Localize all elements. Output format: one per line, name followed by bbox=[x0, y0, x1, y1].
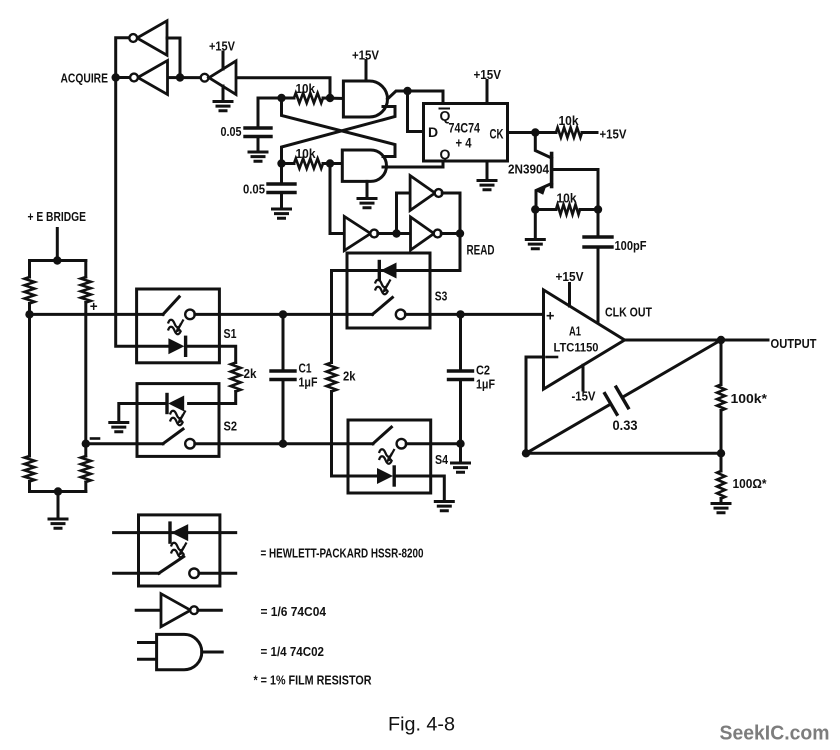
label - input bbox=[547, 356, 558, 359]
svg-text:S4: S4 bbox=[435, 452, 449, 467]
svg-text:* = 1% FILM RESISTOR: * = 1% FILM RESISTOR bbox=[254, 674, 372, 688]
legend LED bbox=[168, 523, 171, 542]
svg-text:C2: C2 bbox=[476, 364, 490, 378]
svg-text:CK: CK bbox=[490, 126, 504, 142]
svg-text:0.33: 0.33 bbox=[613, 418, 638, 433]
ground below bridge bbox=[49, 519, 67, 528]
svg-text:+15V: +15V bbox=[556, 270, 585, 284]
wire feedback bottom bbox=[526, 452, 721, 455]
wire CK to transistor node bbox=[508, 131, 536, 134]
svg-text:+ E BRIDGE: + E BRIDGE bbox=[28, 210, 87, 224]
transistor Q1 2N3904 collector bbox=[535, 133, 551, 159]
node 100k bottom dot bbox=[717, 449, 725, 457]
switch S1 contact bbox=[185, 310, 195, 320]
svg-text:10k: 10k bbox=[296, 81, 316, 96]
svg-text:Q: Q bbox=[440, 146, 451, 162]
LED S1 bbox=[168, 338, 184, 354]
resistor R3 10k pullup bbox=[535, 131, 556, 134]
wire gate U1b output to Q pin bbox=[383, 161, 443, 167]
wire S4 to C2 node bbox=[406, 442, 460, 445]
node bridge + dot bbox=[25, 310, 33, 318]
capacitor C3 0.05 plates bbox=[245, 128, 271, 137]
svg-text:= HEWLETT-PACKARD HSSR-8200: = HEWLETT-PACKARD HSSR-8200 bbox=[261, 547, 424, 561]
wire bridge - to S2 pivot bbox=[86, 442, 163, 445]
svg-text:74C74: 74C74 bbox=[449, 120, 481, 136]
wire op amp output bbox=[625, 339, 768, 342]
legend gate output wire bbox=[202, 651, 222, 654]
svg-text:100Ω*: 100Ω* bbox=[733, 476, 768, 491]
wire bridge + to S1 pivot bbox=[30, 313, 164, 316]
ground below gate U1b bbox=[358, 199, 376, 208]
switch S2 arm bbox=[163, 429, 183, 444]
node READ dot bbox=[456, 229, 464, 237]
node C2 bottom dot bbox=[456, 440, 464, 448]
switch S3 arm bbox=[372, 298, 392, 315]
node C1 top dot bbox=[279, 310, 287, 318]
svg-text:OUTPUT: OUTPUT bbox=[771, 336, 817, 351]
svg-text:+: + bbox=[546, 309, 554, 325]
ground below C4 bbox=[273, 209, 291, 218]
inverter U2d bbox=[410, 176, 435, 211]
svg-text:+15V: +15V bbox=[209, 40, 236, 54]
LED S2 bbox=[165, 395, 168, 413]
wire 100pF to CLK OUT pin bbox=[597, 248, 600, 324]
wire bridge bottom to ground bbox=[57, 492, 60, 519]
svg-text:1μF: 1μF bbox=[299, 376, 318, 390]
transistor Q1 base lead bbox=[552, 170, 598, 210]
legend inverter bbox=[161, 594, 191, 627]
svg-text:LTC1150: LTC1150 bbox=[554, 341, 599, 355]
wire cross-coupling from R2 node to gate U1a bbox=[282, 107, 396, 164]
node C2 top dot bbox=[456, 310, 464, 318]
wire S2 LED to ground bbox=[137, 402, 167, 405]
svg-text:1μF: 1μF bbox=[476, 378, 495, 392]
opto squiggle S2 bbox=[170, 411, 186, 426]
svg-text:+15V: +15V bbox=[352, 49, 380, 63]
svg-text:ACQUIRE: ACQUIRE bbox=[61, 72, 109, 86]
resistor bridge upper-left bbox=[28, 261, 31, 278]
switch box S2 bbox=[137, 384, 219, 457]
wire E BRIDGE stub bbox=[56, 229, 59, 261]
capacitor C2 plates bbox=[449, 371, 473, 380]
legend switch arm bbox=[159, 557, 184, 574]
switch S4 contact bbox=[397, 439, 407, 449]
resistor R8 100ohm bbox=[720, 453, 723, 471]
ground below C3 bbox=[249, 152, 267, 161]
transistor Q1 emitter arrow bbox=[537, 185, 547, 195]
switch S2 contact bbox=[185, 439, 195, 449]
svg-text:+ 4: + 4 bbox=[456, 135, 472, 151]
capacitor C6 0.33 plates bbox=[605, 387, 628, 414]
legend gate input wires bbox=[139, 641, 157, 644]
node output dot bbox=[717, 336, 725, 344]
ground below 100ohm bbox=[712, 504, 730, 513]
svg-text:-15V: -15V bbox=[572, 390, 597, 404]
wire C3 to ground bbox=[257, 138, 260, 152]
node bridge - dot bbox=[82, 440, 90, 448]
op-amp A1 triangle bbox=[544, 290, 625, 389]
wire S1 LED to 2k R5 bbox=[187, 346, 236, 362]
wire gate U1a output to 74C74 bbox=[388, 91, 444, 104]
wire C4 to ground bbox=[280, 194, 283, 209]
wire junction to U2e bbox=[397, 232, 411, 235]
transistor Q1 base bar bbox=[550, 154, 554, 187]
wire top inverter input elbow bbox=[167, 38, 180, 78]
gate U1a AND bbox=[343, 81, 387, 117]
wire C2 node to ground bbox=[459, 444, 462, 463]
ground below 74C74 bbox=[478, 181, 496, 190]
svg-text:D: D bbox=[428, 124, 438, 140]
capacitor C5 100pF plates bbox=[584, 237, 612, 247]
power +15V stub at U3 bbox=[222, 52, 225, 69]
power +15V stub gate U1a bbox=[365, 61, 368, 82]
wire - input feedback bbox=[526, 357, 544, 453]
wire S2 to S4 pivot bbox=[195, 442, 373, 445]
LED S3 bbox=[378, 262, 381, 280]
svg-text:Fig. 4-8: Fig. 4-8 bbox=[388, 714, 455, 736]
opto squiggle S3 bbox=[375, 280, 391, 295]
node bridge top dot bbox=[53, 256, 61, 264]
IC U4 74C74 box bbox=[424, 104, 508, 162]
resistor R4 10k base bbox=[535, 208, 556, 211]
opto squiggle S4 bbox=[379, 449, 395, 464]
legend inverter output wire bbox=[198, 609, 222, 612]
legend switch row wire left bbox=[114, 572, 159, 575]
svg-text:100pF: 100pF bbox=[615, 238, 647, 253]
wire S3 to op amp + bbox=[405, 313, 543, 316]
resistor R1 10k row bbox=[282, 97, 295, 100]
svg-text:10k: 10k bbox=[559, 113, 580, 128]
label - bridge output bbox=[91, 437, 99, 440]
wire S4 LED to ground bbox=[397, 476, 445, 501]
inverter U2a (top, points left) bbox=[137, 21, 167, 56]
wire U2d output to READ bbox=[442, 193, 460, 234]
ground stub below emitter bbox=[534, 210, 537, 240]
svg-text:READ: READ bbox=[467, 243, 495, 258]
wire D input loop bbox=[408, 91, 424, 132]
resistor R5 2k bbox=[231, 363, 241, 392]
resistor R2 10k row bbox=[282, 162, 295, 165]
switch box S1 bbox=[137, 289, 220, 363]
wire junction up to U2d bbox=[397, 193, 411, 234]
wire READ to S3 LED and 2k R6 chain bbox=[332, 234, 461, 363]
node bridge bottom dot bbox=[54, 487, 62, 495]
wire bridge bottom bar bbox=[30, 490, 86, 493]
node base/cap dot bbox=[594, 205, 602, 213]
LED S4 bbox=[377, 468, 393, 484]
wire S1 to S3 pivot bbox=[195, 313, 373, 316]
switch S1 arm bbox=[163, 297, 179, 315]
svg-text:+15V: +15V bbox=[600, 128, 628, 142]
resistor bridge lower-right bbox=[81, 456, 91, 482]
switch S4 arm bbox=[373, 427, 392, 444]
gate U1b AND bbox=[342, 150, 386, 181]
power -15V stub op amp bbox=[582, 365, 585, 390]
node junction dot after inverters bbox=[176, 73, 184, 81]
legend AND gate bbox=[157, 634, 202, 669]
node R1 left dot bbox=[277, 94, 285, 102]
svg-text:10k: 10k bbox=[557, 191, 578, 206]
svg-text:S2: S2 bbox=[224, 419, 238, 434]
wire to capacitor C3 elbow bbox=[258, 98, 282, 127]
wire feedback diagonal lower bbox=[526, 405, 610, 454]
svg-text:C1: C1 bbox=[299, 362, 312, 376]
switch box S3 bbox=[347, 253, 430, 328]
ground at S2 LED bbox=[110, 423, 128, 432]
svg-text:= 1/6 74C04: = 1/6 74C04 bbox=[261, 605, 327, 619]
ground stub below U3 bbox=[222, 86, 225, 101]
svg-text:SeekIC.com: SeekIC.com bbox=[720, 723, 830, 745]
resistor bridge upper-right bbox=[84, 261, 87, 278]
switch S3 contact bbox=[396, 310, 406, 320]
svg-text:= 1/4 74C02: = 1/4 74C02 bbox=[261, 645, 325, 659]
resistor R7 100k bbox=[720, 340, 723, 385]
node inverter junction dot bbox=[392, 229, 400, 237]
svg-text:10k: 10k bbox=[296, 146, 317, 161]
node CK junction dot bbox=[531, 128, 539, 136]
legend inverter input wire bbox=[136, 609, 161, 612]
wire ACQUIRE node to top inverter output bbox=[116, 38, 130, 78]
svg-text:0.05: 0.05 bbox=[221, 125, 242, 139]
legend opto squiggle bbox=[171, 543, 187, 558]
capacitor C4 0.05 wire bbox=[280, 164, 283, 184]
ground stub below 74C74 bbox=[486, 161, 489, 180]
wire ACQUIRE horizontal run bbox=[116, 78, 330, 99]
ground below C2 node bbox=[452, 463, 470, 472]
capacitor C4 0.05 plates bbox=[268, 184, 295, 193]
wire U2e output to READ bbox=[441, 232, 460, 235]
legend switch row wire right bbox=[199, 572, 236, 575]
transistor Q1 emitter bbox=[536, 184, 552, 210]
wire feedback diagonal upper bbox=[623, 340, 721, 397]
capacitor C2 wire bbox=[459, 314, 462, 370]
svg-text:+: + bbox=[90, 299, 98, 314]
wire U2c out to junction bbox=[378, 232, 397, 235]
node R2 right dot bbox=[326, 159, 334, 167]
power +15V stub 74C74 bbox=[486, 81, 489, 104]
svg-text:CLK OUT: CLK OUT bbox=[605, 305, 652, 320]
node emitter dot bbox=[531, 205, 539, 213]
legend switch box bbox=[139, 515, 220, 586]
wire 2k R5 to S2 LED bbox=[189, 392, 236, 404]
wire bridge top bar bbox=[30, 259, 86, 262]
opto squiggle S1 bbox=[168, 320, 184, 335]
switch box S4 bbox=[348, 420, 431, 493]
inverter U2b (second, points left) bbox=[138, 61, 168, 95]
power +15V stub op amp bbox=[568, 284, 571, 307]
ground below U3 bbox=[214, 102, 232, 111]
svg-text:+15V: +15V bbox=[474, 68, 502, 82]
ground below emitter bbox=[526, 240, 544, 249]
inverter U2c bbox=[344, 217, 370, 251]
svg-text:2k: 2k bbox=[244, 367, 257, 381]
wire ACQUIRE vertical down to S1 LED bbox=[116, 78, 168, 347]
wire gate U1b input node down to inverter bbox=[330, 164, 344, 234]
capacitor C1 plates bbox=[271, 371, 295, 380]
svg-text:S3: S3 bbox=[435, 289, 448, 304]
node R1 right dot bbox=[326, 94, 334, 102]
ground at S4 LED bbox=[435, 502, 453, 511]
node D/Qbar junction dot bbox=[403, 87, 411, 95]
svg-text:2N3904: 2N3904 bbox=[508, 163, 549, 177]
inverter U3 buffer with bubble input bbox=[201, 74, 209, 82]
node R2 left dot bbox=[277, 159, 285, 167]
legend LED row wire bbox=[114, 531, 236, 534]
svg-text:S1: S1 bbox=[224, 326, 237, 341]
legend switch contact bbox=[189, 569, 199, 579]
node feedback corner dot bbox=[522, 449, 530, 457]
capacitor C1 wire bbox=[282, 314, 285, 370]
node C1 bottom dot bbox=[279, 440, 287, 448]
resistor bridge lower-left bbox=[25, 456, 35, 482]
node ACQUIRE junction dot bbox=[112, 73, 120, 81]
svg-text:0.05: 0.05 bbox=[243, 183, 265, 197]
wire node to 100pF bbox=[597, 210, 600, 237]
ground stub below gate U1b bbox=[366, 181, 369, 198]
wire cross-coupling from R1 node to gate U1b bbox=[282, 98, 396, 157]
inverter U2e bbox=[411, 217, 435, 250]
svg-text:A1: A1 bbox=[569, 325, 581, 339]
svg-text:100k*: 100k* bbox=[731, 391, 769, 406]
svg-text:2k: 2k bbox=[343, 370, 356, 384]
